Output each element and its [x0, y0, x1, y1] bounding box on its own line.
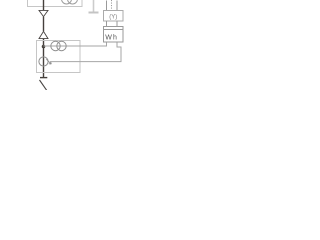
wire: VT secondary to meter	[50, 42, 121, 62]
withdrawable contact (triangle apex up)	[39, 31, 48, 38]
terminal stub (solid) above test block	[106, 1, 108, 11]
transformer T1 (two overlapping circles, cut off at top)	[62, 0, 78, 4]
disconnector switch blade (open)	[40, 80, 47, 91]
stubs between test block and meter	[106, 21, 108, 27]
terminal stub (dashed) above test block	[111, 0, 113, 11]
top switchgear cubicle box	[28, 0, 83, 7]
metering compartment box	[37, 41, 81, 73]
disconnector switch fixed contact bar	[40, 77, 47, 79]
withdrawable contact (triangle apex down)	[39, 10, 48, 16]
VT tap arrowhead	[46, 59, 51, 64]
terminal stub (solid) above test block	[116, 1, 118, 11]
wire: main feeder through metering box	[43, 39, 45, 78]
voltage transformer VT (circle on feeder)	[39, 57, 48, 66]
node: junction dot	[42, 45, 46, 49]
faded bay terminal (T shape, right of top box)	[93, 0, 95, 12]
meter register line	[104, 29, 124, 31]
wire: between contacts	[43, 17, 45, 31]
wire: CT secondary to meter	[44, 42, 107, 46]
wire: main feeder upper segment	[43, 0, 45, 11]
test terminal block box	[104, 11, 124, 22]
svg-text:(Y): (Y)	[109, 14, 117, 20]
svg-text:Wh: Wh	[105, 34, 118, 41]
current transformer CT (two overlapping circles)	[51, 41, 66, 50]
energy meter Wh box	[104, 27, 124, 43]
